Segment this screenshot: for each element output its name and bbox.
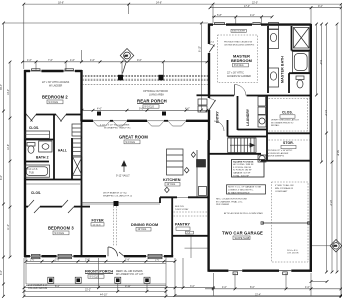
door swings hall <box>27 115 67 122</box>
svg-text:WRAPPED COLUMN (TYP. 2): WRAPPED COLUMN (TYP. 2) <box>103 194 132 197</box>
vault arrow <box>122 161 127 172</box>
svg-text:DINING ROOM: DINING ROOM <box>131 223 158 227</box>
svg-text:INSTALL: INSTALL <box>271 124 280 127</box>
svg-text:9'-0 CLG: 9'-0 CLG <box>234 64 244 67</box>
svg-text:16'-0 x 8'-0: 16'-0 x 8'-0 <box>287 250 298 252</box>
svg-text:SQUARE FOOTAGE:: SQUARE FOOTAGE: <box>233 160 254 163</box>
wall: garage north / stairs south <box>209 153 262 155</box>
svg-text:9'-0 CLG: 9'-0 CLG <box>145 105 155 108</box>
vanity top <box>269 23 279 88</box>
svg-text:MASTER BATH: MASTER BATH <box>281 56 285 83</box>
svg-text:MIN. STORAGE IF: MIN. STORAGE IF <box>275 187 294 190</box>
svg-text:22'-2": 22'-2" <box>85 289 91 292</box>
svg-text:8'-0": 8'-0" <box>0 175 3 180</box>
dining south-east window wall verticals <box>159 197 161 203</box>
porch inner posts at wall <box>97 112 101 116</box>
svg-text:AT MAIN RESIDENCE: AT MAIN RESIDENCE <box>228 191 250 194</box>
svg-text:12'-6": 12'-6" <box>7 144 10 150</box>
svg-text:EV CHARGER. FINAL LOC.: EV CHARGER. FINAL LOC. <box>216 200 243 203</box>
svg-text:6060 SLIDER: 6060 SLIDER <box>232 31 246 33</box>
svg-text:STOR.: STOR. <box>283 141 294 145</box>
wall: house south (bedroom3/dining) with openings <box>24 255 173 257</box>
keynote diamond 407 <box>120 49 134 74</box>
wall: bedroom2 right / rear porch west <box>80 70 82 121</box>
wall tub/toilet <box>289 72 310 74</box>
door swings bedroom3 <box>28 200 74 213</box>
svg-text:ATTIC ACCESS W/ PULL-DOWN STAI: ATTIC ACCESS W/ PULL-DOWN STAIR <box>224 212 263 215</box>
svg-text:9'-0 CLG: 9'-0 CLG <box>126 141 136 144</box>
svg-text:44'-10": 44'-10" <box>100 294 108 297</box>
interior wall: bath2 mid <box>24 161 49 163</box>
interior wall: bedroom3 closet north <box>24 179 82 181</box>
master porch door <box>209 44 215 53</box>
svg-text:11'-0": 11'-0" <box>7 224 10 230</box>
svg-text:TUB: TUB <box>29 172 34 175</box>
pantry <box>172 235 208 237</box>
rear porch dashed roof lines <box>82 75 208 84</box>
svg-text:4'-0": 4'-0" <box>305 286 310 289</box>
svg-text:4'-6": 4'-6" <box>27 59 32 62</box>
svg-text:NOTE: T.O.L. OF GARAGE TO BE: NOTE: T.O.L. OF GARAGE TO BE <box>228 186 262 189</box>
laundry appliances <box>258 97 266 128</box>
svg-text:CROWN MOULDING (VERIFY): CROWN MOULDING (VERIFY) <box>224 44 254 46</box>
kitchen counters right <box>197 150 207 197</box>
svg-text:PANTRY: PANTRY <box>175 223 190 227</box>
svg-text:4 1/2" x 4 1/2" WD. COLUMNS: 4 1/2" x 4 1/2" WD. COLUMNS <box>100 125 130 127</box>
svg-text:BEDROOM 3: BEDROOM 3 <box>48 226 74 231</box>
svg-text:VERIFY SHELVING LAYOUT: VERIFY SHELVING LAYOUT <box>271 119 300 122</box>
svg-text:4'-6": 4'-6" <box>97 108 102 111</box>
wall: house left exterior <box>24 70 26 257</box>
wall: great room north (porch side) <box>81 120 211 122</box>
master bath vanity wall <box>267 26 269 93</box>
interior wall: bedroom3 north <box>24 206 90 208</box>
svg-text:LOWEST 4" BELOW F.F.L.: LOWEST 4" BELOW F.F.L. <box>228 190 254 192</box>
garage door openings <box>228 271 291 275</box>
svg-text:8'-8": 8'-8" <box>319 60 322 65</box>
front door leaf and swing <box>108 247 124 256</box>
master toilet <box>296 76 304 88</box>
svg-text:35'-4": 35'-4" <box>0 84 3 90</box>
svg-text:9'-6": 9'-6" <box>137 59 142 62</box>
right dimension verticals <box>174 24 341 296</box>
svg-text:ACCESS W/ LADDER: ACCESS W/ LADDER <box>267 152 289 155</box>
wall: master north exterior with windows <box>208 23 312 25</box>
svg-text:W/ WRAPPED TRIM (TYP.): W/ WRAPPED TRIM (TYP.) <box>104 126 131 129</box>
svg-text:W/ LADDER: W/ LADDER <box>49 85 63 88</box>
wall: closet west <box>266 96 268 161</box>
svg-text:CLOS.: CLOS. <box>29 126 39 130</box>
bottom dimension tick marks <box>23 260 342 298</box>
closet shelf bed3 <box>26 183 80 185</box>
svg-text:ABOVE (VERIFY): ABOVE (VERIFY) <box>267 155 284 158</box>
svg-text:BEDROOM 2: BEDROOM 2 <box>42 95 68 100</box>
bottom dimension lines <box>24 246 341 296</box>
wall: house east exterior <box>310 24 312 272</box>
wall shower/tub <box>291 26 293 51</box>
svg-text:4'-0": 4'-0" <box>250 14 255 17</box>
svg-text:4'-0": 4'-0" <box>185 108 190 111</box>
left dimension rotated labels <box>0 84 10 275</box>
svg-text:PER OWNER: PER OWNER <box>216 204 230 206</box>
svg-text:O.H. DOOR: O.H. DOOR <box>287 253 299 255</box>
svg-text:H/C LIVING: 1998 SF: H/C LIVING: 1998 SF <box>233 164 254 166</box>
closet shelves bedroom2 <box>25 131 50 138</box>
entry door arc <box>209 99 216 111</box>
master tub <box>293 52 310 73</box>
svg-text:PROVIDE 22" x 30" ATTIC: PROVIDE 22" x 30" ATTIC <box>267 149 293 152</box>
svg-text:CLOS.: CLOS. <box>282 111 293 115</box>
shower <box>294 28 310 49</box>
svg-text:22'-0": 22'-0" <box>252 1 258 4</box>
wall: garage west <box>207 140 209 272</box>
svg-text:COLUMN ABOVE: COLUMN ABOVE <box>28 287 48 290</box>
wall: kitchen south <box>160 196 177 198</box>
wall: dining east / mud hall <box>171 197 173 256</box>
wall: garage south exterior <box>209 270 312 272</box>
svg-text:SLOPE SLAB: SLOPE SLAB <box>235 237 250 240</box>
svg-text:LIVING AREA: LIVING AREA <box>149 93 164 96</box>
porch east dim vertical <box>201 23 203 110</box>
svg-text:DROP BEAM W/ 12" SQ.: DROP BEAM W/ 12" SQ. <box>103 192 127 195</box>
svg-text:2'-8": 2'-8" <box>125 259 130 262</box>
windows house south <box>30 254 164 258</box>
bath2 sink vanity <box>39 141 52 152</box>
svg-text:4" MIN. TO ALLOW: 4" MIN. TO ALLOW <box>275 184 295 187</box>
dimension text top <box>27 1 323 110</box>
interior wall: bath2 north (closet bottom) <box>24 139 54 141</box>
dimension line top overall <box>4 4 342 110</box>
front porch posts <box>48 277 150 283</box>
interior wall: bedroom2 south <box>24 114 82 116</box>
svg-text:2'-0": 2'-0" <box>155 259 160 262</box>
svg-text:10'-2": 10'-2" <box>7 89 10 95</box>
wall: master suite west <box>208 24 210 44</box>
svg-text:ACCESS W/ LADDER: ACCESS W/ LADDER <box>227 75 251 78</box>
svg-text:9'-2": 9'-2" <box>318 5 323 8</box>
garage header line <box>261 222 310 224</box>
svg-text:TOTAL: 3031 SF: TOTAL: 3031 SF <box>233 174 250 177</box>
svg-text:12' CLG: 12' CLG <box>138 228 147 231</box>
window sills bedroom2 top <box>30 69 75 71</box>
svg-text:9'-12' VAULT: 9'-12' VAULT <box>116 175 130 178</box>
svg-text:COMPLIANT: COMPLIANT <box>275 190 288 193</box>
svg-text:KITCHEN: KITCHEN <box>163 178 181 182</box>
svg-text:17'-4": 17'-4" <box>244 5 250 8</box>
sliding door panels great room north <box>93 121 186 126</box>
svg-text:R. PORCH: 190 SF: R. PORCH: 190 SF <box>233 170 252 172</box>
svg-text:8'-10": 8'-10" <box>199 46 202 52</box>
svg-text:CLOS.: CLOS. <box>31 191 41 195</box>
kitchen <box>167 149 184 175</box>
wall: bedroom2 top exterior with windows <box>24 70 82 72</box>
svg-text:PROVIDE TRAY CEILING W/: PROVIDE TRAY CEILING W/ <box>224 41 252 44</box>
wall: closet south <box>267 132 311 134</box>
water heater <box>258 155 266 162</box>
note box <box>227 185 266 195</box>
bottom dimension labels <box>30 259 310 297</box>
svg-text:5'-8": 5'-8" <box>217 14 222 17</box>
svg-text:12' CLG: 12' CLG <box>93 224 101 226</box>
svg-text:6'-0": 6'-0" <box>0 270 3 275</box>
svg-text:REAR PORCH: REAR PORCH <box>137 99 167 104</box>
svg-text:9'-0 CLG: 9'-0 CLG <box>90 275 100 278</box>
svg-text:4'-6": 4'-6" <box>90 59 95 62</box>
interior wall: hall east <box>71 138 73 180</box>
svg-text:9'-0 CLG: 9'-0 CLG <box>55 232 65 235</box>
svg-text:BATH 2: BATH 2 <box>36 156 49 160</box>
svg-text:TWO CAR GARAGE: TWO CAR GARAGE <box>222 231 263 236</box>
beam: great room south with post <box>82 203 161 204</box>
svg-text:14'-0": 14'-0" <box>324 110 327 116</box>
rear porch posts <box>118 75 123 81</box>
master south door <box>235 85 247 96</box>
svg-text:36'-8": 36'-8" <box>336 150 339 156</box>
svg-text:18'-6": 18'-6" <box>58 1 64 4</box>
svg-text:4'-6": 4'-6" <box>70 59 75 62</box>
kitchen keynote diamonds <box>165 152 196 193</box>
svg-text:HALL: HALL <box>58 149 67 153</box>
svg-text:2'-8": 2'-8" <box>55 259 60 262</box>
master bedroom dashed ceiling <box>218 35 258 83</box>
svg-text:W/ LOWEST P.D. AT 'A.H.': W/ LOWEST P.D. AT 'A.H.' <box>116 273 145 276</box>
svg-text:22'-4": 22'-4" <box>255 294 261 297</box>
svg-text:8'-0": 8'-0" <box>250 286 255 289</box>
svg-text:7'-6": 7'-6" <box>48 59 53 62</box>
post foyer <box>114 201 119 206</box>
bath2 tub <box>25 165 50 177</box>
square footage box <box>232 160 265 178</box>
bath2 toilet <box>27 143 35 154</box>
built-in at great room NE <box>198 99 207 112</box>
linen by bath <box>72 124 82 136</box>
svg-text:FOYER: FOYER <box>92 219 105 223</box>
laundry walls <box>237 96 239 130</box>
porch slab edge <box>26 257 166 285</box>
svg-text:3'-0": 3'-0" <box>190 285 195 288</box>
svg-text:22'-0": 22'-0" <box>329 200 332 206</box>
svg-text:24'-6": 24'-6" <box>156 1 162 4</box>
entry return wall <box>197 94 210 96</box>
svg-text:'DROP ZONE': 'DROP ZONE' <box>175 209 189 211</box>
svg-text:GARAGE: 557 SF: GARAGE: 557 SF <box>233 172 251 175</box>
svg-text:F. PORCH: 286 SF: F. PORCH: 286 SF <box>233 167 252 169</box>
interior wall: closet/bath divider vertical <box>53 115 55 181</box>
stairs <box>228 138 256 153</box>
svg-text:BUILT-IN: BUILT-IN <box>175 206 184 208</box>
svg-text:W/ OWNER PRIOR TO: W/ OWNER PRIOR TO <box>271 122 294 124</box>
svg-text:9'-0 CLG: 9'-0 CLG <box>49 101 59 104</box>
dimension tick marks top <box>2 3 342 112</box>
svg-text:2'-0": 2'-0" <box>30 259 35 262</box>
svg-text:FRONT PORCH: FRONT PORCH <box>85 270 113 274</box>
svg-text:4'-0": 4'-0" <box>222 286 227 289</box>
svg-text:BEDROOM: BEDROOM <box>231 58 252 63</box>
right dimension rotated labels <box>319 60 339 206</box>
garage dashed slab <box>272 182 309 262</box>
svg-text:REC. LOCATION FOR FUTURE: REC. LOCATION FOR FUTURE <box>216 198 247 201</box>
wall: storage south <box>261 160 311 162</box>
svg-text:12' CLG: 12' CLG <box>167 183 176 186</box>
keynote diamond 403 right <box>312 240 342 253</box>
linen cabinets hall east <box>73 139 82 176</box>
foyer ceiling break dashed <box>114 206 117 246</box>
svg-text:LAUNDRY: LAUNDRY <box>246 108 250 126</box>
wall: hall/bed3 east <box>81 121 83 256</box>
svg-text:GREAT ROOM: GREAT ROOM <box>119 135 148 140</box>
